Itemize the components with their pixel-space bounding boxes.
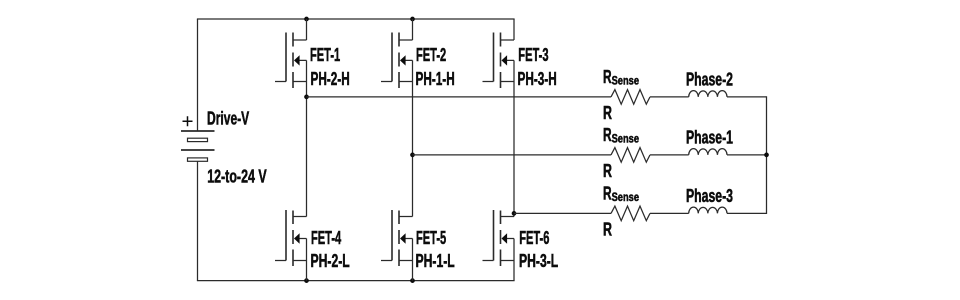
junction bottom rail / FET-5 source — [410, 278, 415, 283]
wire Phase-2 sense line left — [307, 96, 612, 98]
wire Phase-2 right segment — [727, 96, 767, 98]
svg-text:R: R — [603, 161, 612, 181]
wire Phase-3 middle segment — [650, 212, 689, 214]
svg-text:Sense: Sense — [612, 74, 640, 88]
transistor Q5 FET-5 — [381, 210, 413, 281]
svg-text:PH-1-H: PH-1-H — [416, 69, 455, 89]
transistor Q6 FET-6 — [483, 210, 515, 281]
wire bottom rail (return bus) — [197, 280, 515, 282]
wire motor star point vertical — [766, 96, 768, 214]
svg-text:FET-5: FET-5 — [416, 228, 446, 248]
svg-text:PH-2-H: PH-2-H — [311, 69, 350, 89]
svg-text:PH-2-L: PH-2-L — [311, 251, 350, 271]
inductor L Phase-2 winding — [689, 91, 727, 97]
svg-text:Drive-V: Drive-V — [207, 108, 249, 128]
svg-text:R: R — [603, 125, 612, 145]
transistor Q3 FET-3 — [483, 19, 515, 88]
svg-text:PH-1-L: PH-1-L — [416, 251, 455, 271]
svg-text:Sense: Sense — [612, 190, 640, 204]
transistor Q2 FET-2 — [381, 19, 413, 88]
junction top rail / FET-1 drain — [304, 17, 309, 22]
svg-text:PH-3-L: PH-3-L — [519, 251, 558, 271]
wire battery positive lead — [197, 19, 199, 131]
junction star point / Phase-1 — [764, 153, 769, 158]
wire Phase-1 sense line left — [413, 154, 612, 156]
junction PH-2 node / sense line — [304, 95, 309, 100]
resistor R3 R_Sense (Phase-3 shunt) — [611, 206, 650, 221]
svg-text:Phase-1: Phase-1 — [686, 128, 733, 148]
svg-text:R: R — [603, 103, 612, 123]
svg-text:FET-1: FET-1 — [310, 45, 340, 65]
wire Phase-3 sense line left — [514, 212, 611, 214]
wire top rail (Drive-V bus) — [197, 18, 515, 20]
svg-text:FET-3: FET-3 — [518, 45, 548, 65]
svg-text:R: R — [603, 67, 612, 87]
junction PH-1 node / sense line — [410, 153, 415, 158]
wire FET-1/FET-4 midpoint (PH-2 node) — [306, 82, 308, 217]
wire Phase-1 right segment — [727, 154, 767, 156]
resistor R2 R_Sense (Phase-1 shunt) — [611, 148, 650, 163]
resistor R1 R_Sense (Phase-2 shunt) — [611, 90, 650, 105]
svg-text:R: R — [603, 219, 612, 239]
battery BT1 Drive-V — [181, 131, 215, 161]
junction PH-3 node / sense line — [512, 211, 517, 216]
junction top rail / FET-2 drain — [410, 17, 415, 22]
inductor L Phase-3 winding — [689, 207, 727, 213]
svg-text:PH-3-H: PH-3-H — [518, 69, 557, 89]
inductor L Phase-1 winding — [689, 149, 727, 155]
transistor Q4 FET-4 — [275, 210, 307, 281]
svg-text:Phase-3: Phase-3 — [686, 186, 733, 206]
wire FET-3/FET-6 midpoint (PH-3 node) — [513, 82, 515, 217]
wire Phase-1 middle segment — [650, 154, 689, 156]
svg-text:R: R — [603, 183, 612, 203]
svg-text:FET-2: FET-2 — [416, 45, 446, 65]
wire Phase-3 right segment — [727, 212, 767, 214]
svg-text:FET-4: FET-4 — [311, 228, 341, 248]
battery plus sign — [183, 116, 193, 126]
wire FET-2/FET-5 midpoint (PH-1 node) — [412, 82, 414, 217]
svg-text:Sense: Sense — [612, 132, 640, 146]
transistor Q1 FET-1 — [275, 19, 307, 88]
svg-text:12-to-24 V: 12-to-24 V — [207, 167, 267, 187]
junction bottom rail / FET-4 source — [304, 278, 309, 283]
svg-text:Phase-2: Phase-2 — [686, 70, 733, 90]
wire Phase-2 middle segment — [650, 96, 689, 98]
svg-text:FET-6: FET-6 — [519, 228, 549, 248]
wire battery negative lead — [197, 161, 199, 280]
